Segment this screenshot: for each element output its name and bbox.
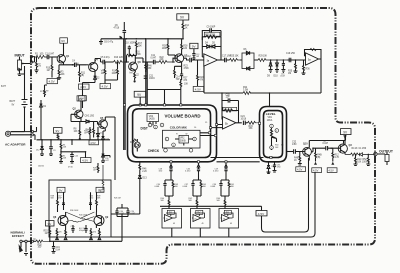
level outer wire loop bbox=[260, 107, 287, 162]
voltage box 9V below Q4 chain bbox=[79, 83, 95, 109]
capacitor C25 bbox=[68, 140, 78, 169]
wire Q10 emitter output bbox=[309, 148, 326, 160]
ground under R3 bbox=[57, 78, 61, 79]
svg-text:49: 49 bbox=[230, 223, 232, 225]
svg-text:1M: 1M bbox=[47, 70, 50, 72]
capacitor C8 on Q5 wire bbox=[85, 116, 95, 124]
diode D1 bbox=[40, 100, 47, 140]
junction dot level feed bbox=[269, 92, 271, 94]
svg-text:4.5V: 4.5V bbox=[102, 85, 108, 89]
svg-text:9V: 9V bbox=[61, 39, 65, 43]
resistor R48 bbox=[314, 148, 322, 165]
wire node to Q1 bbox=[52, 56, 57, 58]
capacitor C10 bbox=[125, 43, 136, 56]
resistor R13 bbox=[114, 57, 124, 63]
svg-text:4.5V: 4.5V bbox=[82, 159, 88, 163]
footswitch board pin bbox=[31, 239, 36, 242]
resistor R16 bbox=[127, 52, 142, 57]
svg-text:9V: 9V bbox=[180, 16, 185, 20]
diode D13 bbox=[138, 173, 147, 215]
svg-text:4.5V: 4.5V bbox=[313, 169, 319, 173]
svg-text:VR2: VR2 bbox=[180, 138, 185, 140]
capacitor C17 bbox=[222, 56, 232, 63]
svg-text:FB2 2.2K: FB2 2.2K bbox=[224, 109, 233, 111]
svg-text:680: 680 bbox=[203, 186, 206, 188]
svg-text:1/50: 1/50 bbox=[75, 63, 79, 65]
svg-text:47K: 47K bbox=[199, 79, 204, 81]
resistor R39 capacitor C20 labels bbox=[89, 192, 101, 212]
svg-text:10/16: 10/16 bbox=[149, 78, 155, 80]
input jack plug bbox=[18, 68, 21, 72]
svg-text:1M: 1M bbox=[288, 73, 291, 75]
svg-text:hm: hm bbox=[281, 145, 284, 147]
wire feedback R34 line bbox=[204, 67, 321, 94]
svg-text:0.04: 0.04 bbox=[56, 249, 61, 251]
resistor R10 bbox=[46, 57, 53, 78]
voltage box 9V top center bbox=[177, 14, 189, 20]
NORMAL/EFFECT label bbox=[11, 231, 26, 239]
board pin squares on loop top bbox=[124, 104, 182, 106]
svg-text:OUTPUT: OUTPUT bbox=[379, 150, 394, 154]
feedback loop IC2a bbox=[305, 48, 322, 59]
transistor Q4 bbox=[86, 59, 98, 74]
wire Q6 collector up bbox=[129, 56, 143, 63]
capacitor C11 bbox=[151, 55, 160, 64]
voltage box 4.5V under Q6 stage bbox=[100, 84, 111, 89]
footswitch jack bbox=[19, 240, 32, 255]
svg-text:C25: C25 bbox=[75, 156, 78, 158]
svg-text:C9 100P: C9 100P bbox=[207, 27, 216, 29]
capacitor C14 and resistor R27 bbox=[174, 66, 188, 82]
resistor R56 bbox=[93, 163, 99, 173]
resistor R55 column bbox=[100, 165, 105, 194]
svg-text:680: 680 bbox=[231, 186, 234, 188]
svg-text:9V: 9V bbox=[48, 222, 52, 226]
diode D15 column bbox=[267, 162, 275, 174]
LED D14 bbox=[130, 139, 140, 152]
svg-text:100K: 100K bbox=[162, 48, 168, 50]
color mix sub-board box bbox=[163, 130, 201, 148]
diode D12 bbox=[36, 140, 44, 168]
voltage box 9V in box left bbox=[57, 187, 65, 192]
svg-text:C3: C3 bbox=[53, 150, 55, 152]
svg-text:1M: 1M bbox=[38, 66, 41, 68]
voltage box 9V above Q1 bbox=[60, 38, 68, 51]
svg-text:470: 470 bbox=[93, 232, 96, 234]
svg-text:0.047: 0.047 bbox=[49, 54, 55, 56]
op-amp box 2b bbox=[191, 209, 211, 229]
svg-text:W: W bbox=[186, 134, 188, 136]
junction dot C19 node bbox=[102, 155, 104, 157]
output pin circle bbox=[374, 152, 377, 155]
svg-text:(B): (B) bbox=[81, 75, 84, 77]
svg-text:10K: 10K bbox=[61, 74, 66, 76]
mixer column 1 RC pair bbox=[155, 180, 178, 209]
capacitor C24b bbox=[117, 204, 135, 217]
pot VR4 pin circles bbox=[148, 123, 164, 129]
resistor R38 capacitor C17 labels bbox=[51, 192, 66, 212]
junction dot rail R12 bbox=[182, 38, 184, 40]
volume board inner wire loop bbox=[133, 109, 211, 158]
bottom return wire A bbox=[262, 158, 309, 232]
svg-text:1/50: 1/50 bbox=[362, 148, 367, 150]
wire to C11 bbox=[143, 61, 152, 63]
capacitor C5 bbox=[101, 57, 114, 64]
resistor R5 bbox=[59, 151, 72, 163]
test point box 4.5V a bbox=[312, 168, 322, 173]
mixer column 1 drop bbox=[159, 161, 173, 180]
voltage box 9V in box right bbox=[96, 187, 104, 192]
svg-text:0.068: 0.068 bbox=[211, 186, 216, 188]
wire level output bbox=[287, 151, 294, 153]
svg-text:R26 1M: R26 1M bbox=[114, 198, 121, 200]
op-amp output drops bbox=[172, 228, 229, 237]
voltage box 4.5V power section bbox=[72, 152, 91, 163]
wire Q1 emitter bbox=[59, 65, 73, 70]
wire to flip-flop caps bbox=[111, 213, 140, 215]
svg-text:47K: 47K bbox=[183, 80, 188, 82]
svg-text:INPUT: INPUT bbox=[15, 54, 26, 58]
resistor R1 bbox=[35, 54, 45, 59]
svg-text:4.5V: 4.5V bbox=[297, 168, 303, 172]
battery BATT 9V bbox=[10, 100, 28, 108]
junction dot C4 node bbox=[72, 64, 74, 66]
capacitor C19 bbox=[50, 241, 61, 253]
svg-text:1K: 1K bbox=[294, 160, 297, 162]
capacitor C21 electrolytic bbox=[144, 76, 156, 81]
svg-text:COLOR MIX: COLOR MIX bbox=[170, 126, 187, 130]
wire Q5 collector right bbox=[105, 117, 115, 180]
op-amp box 2c bbox=[219, 209, 239, 229]
resistor R7 bbox=[84, 127, 91, 140]
wire IC2a output down to R34 line bbox=[320, 59, 322, 93]
svg-text:10K: 10K bbox=[263, 56, 268, 58]
svg-text:R36 100K: R36 100K bbox=[70, 210, 79, 212]
level loop pin square bbox=[270, 156, 272, 158]
volume board outer wire loop bbox=[128, 105, 217, 162]
resistor R44 bbox=[86, 122, 95, 138]
wire Q10 collector to 9V bbox=[309, 141, 345, 146]
pot VR2 bbox=[175, 134, 193, 146]
AC adaptor jack bbox=[5, 131, 31, 136]
svg-text:DIST: DIST bbox=[141, 126, 148, 130]
svg-text:0.047: 0.047 bbox=[131, 213, 136, 215]
voltage box 9V right of rail bbox=[190, 43, 198, 51]
wire input riser bbox=[34, 57, 37, 62]
svg-text:100/16: 100/16 bbox=[38, 166, 44, 168]
capacitor C4 bbox=[72, 61, 86, 68]
resistor R50 bbox=[36, 240, 51, 249]
svg-text:Q10: Q10 bbox=[303, 142, 308, 145]
capacitor C15 to ground bbox=[280, 59, 285, 77]
svg-text:4/50µP: 4/50µP bbox=[79, 230, 86, 232]
capacitor C24 bbox=[241, 116, 248, 125]
svg-text:hm: hm bbox=[130, 73, 133, 75]
transistor Q9 bbox=[94, 212, 109, 228]
wire volume feed bus bbox=[147, 90, 181, 106]
label R44 100K block bbox=[275, 145, 284, 150]
svg-text:0.047: 0.047 bbox=[104, 160, 109, 162]
feedback network R20 220K bbox=[202, 32, 221, 60]
svg-text:100K: 100K bbox=[362, 161, 368, 163]
svg-text:10K: 10K bbox=[184, 84, 189, 86]
resistor R46 under volume board bbox=[139, 162, 148, 173]
svg-text:49: 49 bbox=[173, 223, 175, 225]
svg-text:0.047: 0.047 bbox=[280, 76, 285, 78]
wire volume bottom rails to level bbox=[211, 158, 264, 162]
svg-text:1K: 1K bbox=[185, 27, 188, 29]
svg-text:470: 470 bbox=[59, 232, 62, 234]
svg-text:4.5V: 4.5V bbox=[328, 169, 334, 173]
svg-text:0.47µ: 0.47µ bbox=[104, 57, 110, 59]
resistor R18 under Q6 bbox=[130, 72, 140, 82]
wire trunk pair A to volume board bbox=[124, 39, 125, 150]
top supply rail bbox=[101, 38, 183, 40]
capacitor C13 bbox=[192, 52, 200, 60]
resistor R8 bbox=[71, 114, 85, 140]
pot VR1 bbox=[270, 124, 279, 150]
svg-text:47/16: 47/16 bbox=[114, 27, 120, 29]
diodes D4 D5 feedback bbox=[202, 43, 221, 49]
resistor R21 bbox=[145, 62, 153, 72]
svg-text:C6 0.47µ: C6 0.47µ bbox=[104, 42, 114, 44]
voltage box 4.5V under R19 bbox=[193, 87, 204, 92]
junction dot ic1b input bbox=[221, 92, 223, 94]
svg-text:12P: 12P bbox=[226, 97, 231, 99]
cross coupling resistors R36 R40 bbox=[66, 210, 95, 222]
svg-text:BATT: BATT bbox=[10, 100, 16, 103]
mixer bus wire bbox=[160, 206, 262, 211]
junction dot R22 node bbox=[172, 61, 174, 63]
voltage box 9V power section bbox=[54, 128, 63, 140]
test point box 4.5V b bbox=[327, 168, 337, 173]
svg-text:0.1/50: 0.1/50 bbox=[185, 171, 190, 173]
resistor R28 bbox=[181, 39, 188, 52]
junction dot Q10 wire bbox=[312, 147, 314, 149]
capacitor C16 bbox=[286, 53, 296, 62]
wire feed into level top bbox=[269, 93, 271, 107]
diode D10b bbox=[102, 131, 109, 151]
svg-text:AC ADAPTOR: AC ADAPTOR bbox=[5, 143, 26, 147]
transistor Q5 bbox=[94, 117, 107, 131]
capacitor C12 bbox=[187, 56, 204, 62]
resistor R26 bbox=[162, 39, 175, 58]
junction dot Q6 node bbox=[126, 61, 128, 63]
capacitor C26 bbox=[103, 156, 110, 162]
svg-text:0.047: 0.047 bbox=[323, 143, 329, 145]
junction dot output node bbox=[355, 154, 357, 156]
diode D24 bbox=[101, 151, 108, 163]
capacitor C28r column bbox=[273, 162, 281, 173]
svg-text:10KA: 10KA bbox=[267, 119, 273, 122]
voltage box 9V right side bbox=[341, 129, 352, 141]
input jack J1 bbox=[18, 57, 31, 76]
svg-text:6477: 6477 bbox=[1, 86, 7, 88]
resistor R12 bbox=[182, 20, 190, 39]
svg-text:0.068: 0.068 bbox=[155, 186, 160, 188]
resistor R25 bbox=[230, 56, 242, 62]
resistor R22 bbox=[159, 57, 175, 64]
diode D9 to ground bbox=[267, 59, 273, 77]
svg-text:22K: 22K bbox=[160, 59, 165, 61]
wire Q4 emitter to C5 bbox=[95, 59, 102, 63]
resistor R6 bbox=[60, 140, 67, 151]
capacitor C9 bbox=[202, 27, 221, 40]
svg-text:4.5V: 4.5V bbox=[80, 85, 86, 89]
svg-text:4.7K: 4.7K bbox=[335, 157, 340, 159]
svg-text:470K: 470K bbox=[184, 68, 190, 70]
svg-text:R9: R9 bbox=[46, 91, 48, 93]
resistor R2 column bbox=[35, 57, 42, 73]
svg-text:10/16: 10/16 bbox=[241, 118, 247, 120]
mixer column 2 RC pair bbox=[183, 180, 206, 209]
capacitor C3 electrolytic bbox=[49, 140, 55, 156]
diode clipper D6 D8 loop bbox=[240, 49, 258, 70]
svg-text:15K: 15K bbox=[235, 56, 240, 58]
resistor R31 into volume board bbox=[180, 79, 189, 105]
junction dot output node2 bbox=[368, 154, 370, 156]
diode D10 to ground bbox=[274, 59, 280, 77]
flip-flop board box Q8 Q9 bbox=[49, 180, 111, 237]
transistor Q3 bbox=[331, 136, 353, 155]
svg-text:4.5V: 4.5V bbox=[258, 212, 265, 216]
capacitor C6 electrolytic on trunk bbox=[114, 22, 127, 39]
feedback resistor R32 bbox=[222, 107, 239, 123]
battery wire column bbox=[11, 70, 25, 132]
resistor R3 bbox=[58, 70, 65, 78]
svg-text:100K: 100K bbox=[112, 73, 118, 75]
color mix pin circles bbox=[165, 137, 196, 147]
pot VR4 wire column bbox=[101, 62, 106, 80]
svg-text:C?1µ: C?1µ bbox=[71, 226, 75, 228]
output jack J2 bbox=[377, 152, 389, 165]
svg-text:R20 220K: R20 220K bbox=[205, 34, 216, 36]
svg-text:1/50: 1/50 bbox=[292, 144, 297, 146]
voltage box 9V above volume board bbox=[134, 91, 146, 105]
wire trunk pair B C21 bbox=[146, 39, 147, 105]
voltage box 9V footswitch bbox=[46, 221, 55, 226]
svg-text:49: 49 bbox=[202, 223, 204, 225]
capacitor C20 bbox=[222, 95, 239, 111]
resistor R4 bbox=[345, 148, 359, 156]
diode D11 bbox=[97, 127, 104, 140]
capacitor C23 bbox=[115, 208, 124, 217]
resistor R17 bbox=[134, 41, 143, 56]
mixer column 3 RC pair bbox=[211, 180, 234, 209]
resistor R33 bbox=[248, 121, 261, 130]
ground dot D15 bbox=[268, 172, 270, 174]
pot VR4 DIST bbox=[147, 114, 159, 126]
capacitor C1 bbox=[45, 54, 55, 60]
diode D2 bbox=[94, 73, 101, 83]
voltage box 4.5V under R11 bbox=[79, 84, 90, 89]
svg-text:1M: 1M bbox=[93, 170, 96, 172]
svg-text:100P: 100P bbox=[130, 43, 136, 45]
svg-text:(B): (B) bbox=[317, 157, 320, 159]
wire to IC2a bbox=[296, 60, 306, 63]
svg-text:47/16: 47/16 bbox=[68, 167, 73, 169]
input board pins bbox=[30, 56, 35, 64]
svg-text:1M: 1M bbox=[87, 132, 90, 134]
svg-text:4.5V: 4.5V bbox=[49, 80, 55, 84]
resistor R36 to ground bbox=[302, 63, 311, 75]
svg-text:9V: 9V bbox=[59, 188, 63, 192]
wire Q7 output to IC1a bbox=[184, 58, 189, 60]
resistors under Q8 bbox=[56, 228, 67, 240]
AC adaptor board pins bbox=[31, 127, 37, 140]
resistor R35 to ground bbox=[288, 59, 298, 75]
svg-text:VOLUME BOARD: VOLUME BOARD bbox=[165, 113, 201, 118]
level inner wire loop bbox=[264, 111, 283, 158]
transistor Q1 bbox=[57, 51, 70, 65]
svg-text:1/50: 1/50 bbox=[291, 53, 296, 55]
svg-text:M: M bbox=[34, 239, 36, 241]
svg-text:9V: 9V bbox=[12, 105, 15, 107]
svg-text:1M: 1M bbox=[45, 233, 48, 235]
svg-text:0.008: 0.008 bbox=[183, 186, 188, 188]
voltage box 4.5V under R44 bbox=[89, 140, 99, 145]
svg-text:2.2K: 2.2K bbox=[142, 171, 147, 173]
voltage box 9V above Q2 bbox=[77, 96, 85, 101]
svg-text:22K: 22K bbox=[119, 57, 124, 59]
power rail from adaptor bbox=[37, 139, 111, 141]
resistor R34 bbox=[243, 87, 251, 95]
svg-text:50KB: 50KB bbox=[180, 140, 186, 142]
svg-text:3.3M: 3.3M bbox=[243, 89, 248, 91]
svg-text:4.5V: 4.5V bbox=[90, 141, 96, 145]
wire jack sleeve to battery bbox=[20, 70, 25, 74]
diode D3 column bbox=[44, 85, 49, 97]
resistor R11 bbox=[79, 65, 86, 82]
svg-text:CHECK: CHECK bbox=[148, 149, 160, 153]
transistor Q6 bbox=[129, 58, 142, 72]
voltage box 4.5V under Q1 bbox=[47, 79, 58, 84]
svg-text:1/50: 1/50 bbox=[277, 167, 281, 169]
op-amp IC2a bbox=[306, 53, 319, 65]
svg-text:70P: 70P bbox=[176, 79, 181, 81]
svg-text:1/50: 1/50 bbox=[159, 171, 163, 173]
board pin squares right side bbox=[194, 122, 218, 137]
svg-text:10K: 10K bbox=[138, 45, 143, 47]
transistor Q10 bbox=[298, 142, 311, 158]
svg-text:4.5V: 4.5V bbox=[195, 88, 201, 92]
resistor R23 bbox=[175, 64, 190, 70]
junction dot power rail x85 bbox=[85, 151, 87, 153]
footswitch wire to board bbox=[54, 217, 123, 242]
resistor R14 bbox=[105, 62, 118, 84]
wire IC1b minus from R34 line bbox=[221, 93, 223, 111]
svg-text:0.1/50: 0.1/50 bbox=[88, 116, 95, 118]
capacitor C2 output bbox=[359, 148, 376, 156]
resistor R53 bbox=[44, 226, 51, 241]
svg-text:LEVEL: LEVEL bbox=[266, 112, 276, 116]
wire volume board to IC1b bbox=[200, 125, 223, 136]
resistor R49 bbox=[294, 152, 302, 166]
capacitor C7 bbox=[323, 141, 331, 151]
op-amp IC1b bbox=[222, 111, 242, 130]
svg-text:EFFECT: EFFECT bbox=[12, 234, 24, 238]
svg-text:D10: D10 bbox=[106, 139, 109, 141]
ground left end of rail bbox=[99, 39, 103, 45]
check pin circle bbox=[164, 149, 168, 153]
svg-text:1M: 1M bbox=[101, 73, 104, 75]
svg-text:9V: 9V bbox=[79, 97, 83, 101]
junction dot R46 top bbox=[139, 161, 141, 163]
capacitor C32 bbox=[292, 142, 298, 154]
bottom return wire B bbox=[111, 172, 315, 237]
resistor R12b bbox=[331, 148, 340, 165]
mixer column 2 drop bbox=[185, 161, 200, 180]
